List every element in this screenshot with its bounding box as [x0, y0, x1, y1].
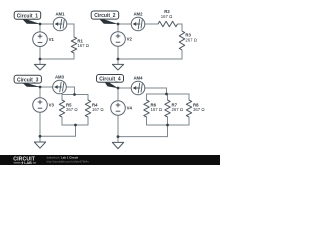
CircuitLab logo: [13, 157, 36, 166]
svg-text:267 Ω: 267 Ω: [185, 37, 197, 42]
node dot top rail tap c4: [165, 93, 168, 96]
voltage source V3: [33, 98, 55, 113]
svg-text:AM1: AM1: [55, 12, 65, 17]
bottom rail c4: [147, 124, 190, 126]
node label flag Circuit_2: [91, 11, 119, 24]
ground (circuit 4): [112, 142, 123, 148]
resistor R2: [158, 9, 178, 27]
R7 bottom lead: [167, 117, 169, 125]
node label flag Circuit_4: [97, 75, 124, 89]
node dot junction2: [117, 23, 120, 26]
wire V4 bottom to ground: [117, 115, 119, 142]
svg-text:V1: V1: [49, 37, 55, 42]
svg-text:AM3: AM3: [55, 75, 65, 80]
node dot junction1: [39, 23, 42, 26]
svg-text:167 Ω: 167 Ω: [161, 14, 173, 19]
node label flag Circuit_1: [14, 11, 41, 24]
node dot bottom rail c2: [117, 58, 120, 61]
node label flag Circuit_3: [14, 75, 41, 87]
R6 bottom lead: [146, 117, 148, 125]
wire AM1 to R1 top corner: [67, 24, 74, 37]
ground (circuit 1): [34, 64, 45, 70]
wire junction3 down to V3: [39, 87, 41, 98]
resistor R4: [85, 100, 104, 117]
ammeter AM1: [53, 12, 67, 31]
voltage source V4: [111, 101, 133, 116]
node dot junction4: [117, 87, 120, 90]
top rail c3: [62, 94, 88, 96]
R8 top lead: [188, 94, 190, 100]
svg-text:AM4: AM4: [133, 76, 143, 81]
resistor R8: [186, 100, 205, 117]
wire R2 right to R3 top: [178, 24, 183, 31]
node dot bottom rail c1: [39, 58, 42, 61]
voltage source V1: [33, 32, 55, 47]
svg-text:167 Ω: 167 Ω: [77, 43, 89, 48]
top rail c4: [147, 93, 190, 95]
resistor R1: [71, 37, 89, 53]
wire junction1 to AM1: [40, 23, 53, 25]
node dot top rail tap c3: [73, 93, 76, 96]
R8 bottom lead: [188, 117, 190, 125]
wire junction2 down to V2 top: [117, 24, 119, 32]
wire junction4 down to V4: [117, 88, 119, 101]
wire junction4 to AM4: [118, 87, 131, 89]
ground (circuit 3): [34, 142, 45, 148]
node dot bottom rail tap c4: [166, 124, 169, 127]
wire V1 bottom to ground node: [39, 47, 41, 65]
svg-text:http://circuitlab.com/c/y4pe67: http://circuitlab.com/c/y4pe676k4s: [47, 159, 90, 163]
node dot ground rail c3: [39, 135, 42, 138]
svg-text:LAB: LAB: [24, 161, 32, 165]
resistor R6: [144, 100, 163, 117]
ammeter AM3: [53, 75, 67, 94]
wire bottom tap to ground rail c4: [118, 125, 168, 137]
wire AM4 to top rail tap c4: [145, 88, 167, 94]
wire junction3 to AM3: [40, 86, 53, 88]
wire bottom tap to ground rail c3: [40, 125, 76, 136]
R4 top lead: [87, 95, 89, 101]
svg-text:Circuit_1: Circuit_1: [17, 13, 39, 19]
svg-text:V4: V4: [127, 106, 133, 111]
R7 top lead: [167, 94, 169, 100]
node dot bottom rail tap c3: [74, 124, 77, 127]
ground (circuit 2): [112, 64, 123, 70]
ammeter AM2: [131, 12, 145, 31]
bottom rail c3: [62, 124, 88, 126]
R5 top lead: [61, 95, 63, 101]
wire R1 bottom to bottom rail: [40, 53, 74, 59]
svg-text:V2: V2: [127, 37, 133, 42]
wire AM2 to R2 left: [145, 23, 158, 25]
R5 bottom lead: [61, 117, 63, 125]
wire V3 bottom to ground: [39, 112, 41, 142]
svg-text:Circuit_3: Circuit_3: [17, 77, 39, 83]
svg-text:V3: V3: [49, 103, 55, 108]
resistor R5: [59, 100, 78, 117]
svg-text:167 Ω: 167 Ω: [92, 107, 104, 112]
svg-text:AM2: AM2: [133, 12, 143, 17]
ammeter AM4: [131, 76, 145, 95]
node dot junction3: [39, 86, 42, 89]
svg-text:267 Ω: 267 Ω: [172, 107, 184, 112]
resistor R3: [179, 31, 197, 50]
svg-text:267 Ω: 267 Ω: [66, 107, 78, 112]
wire V2 bottom to ground node: [117, 46, 119, 64]
voltage source V2: [111, 32, 133, 47]
wire junction1 down to V1 top: [39, 24, 41, 32]
svg-text:167 Ω: 167 Ω: [151, 107, 163, 112]
svg-text:Circuit_2: Circuit_2: [94, 13, 116, 19]
R6 top lead: [146, 94, 148, 100]
wire AM3 to top rail tap: [66, 87, 74, 95]
wire junction2 to AM2: [118, 23, 131, 25]
resistor R7: [165, 100, 184, 117]
R4 bottom lead: [87, 117, 89, 125]
svg-text:Circuit_4: Circuit_4: [99, 77, 121, 83]
node dot ground rail c4: [117, 135, 120, 138]
svg-text:367 Ω: 367 Ω: [193, 107, 205, 112]
wire R3 bottom to bottom rail c2: [118, 50, 182, 59]
